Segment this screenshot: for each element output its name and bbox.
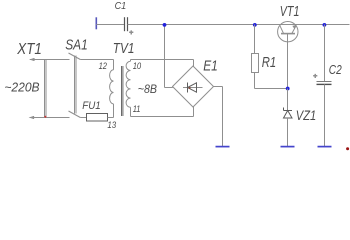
capacitor C2 [317, 25, 332, 147]
node junction C1 [163, 23, 167, 27]
svg-text:12: 12 [99, 61, 108, 72]
svg-text:SA1: SA1 [65, 36, 88, 53]
label pin 10 [133, 61, 142, 72]
svg-text:13: 13 [107, 120, 116, 131]
wire bottom-left mains [30, 117, 70, 119]
wire bridge minus to ground [214, 87, 223, 147]
secondary winding [130, 60, 132, 62]
artifact dot on bridge diode [189, 87, 191, 89]
svg-text:11: 11 [133, 104, 141, 115]
label VT1 [280, 3, 300, 20]
svg-text:C2: C2 [329, 62, 342, 77]
capacitor C1 [96, 17, 164, 31]
svg-text:C1: C1 [115, 1, 127, 12]
svg-text:R1: R1 [262, 55, 276, 71]
asterisk mark of C1 [129, 29, 133, 36]
label C2 [329, 62, 342, 77]
label ~220B [4, 81, 39, 95]
transistor VT1 [278, 22, 298, 89]
label XT1 [16, 41, 41, 58]
label E1 [203, 58, 218, 75]
plus mark of C2 [313, 73, 317, 80]
primary winding [113, 60, 115, 70]
wire secondary pin11 to bridge bottom [131, 107, 194, 117]
artifact red dot XT1 [44, 116, 46, 118]
ground [216, 146, 230, 148]
svg-text:~8В: ~8В [138, 82, 157, 96]
svg-text:~220В: ~220В [4, 81, 39, 95]
svg-text:FU1: FU1 [82, 100, 100, 112]
switch SA1 [69, 53, 81, 118]
resistor R1 [252, 25, 288, 89]
svg-text:TV1: TV1 [113, 41, 135, 57]
wire secondary pin10 to bridge top [131, 60, 194, 67]
wire top-left mains [30, 59, 70, 61]
label C1 [115, 1, 127, 12]
label SA1 [65, 36, 88, 53]
core [121, 66, 123, 116]
wire top rail [165, 24, 350, 26]
label ~8B [138, 82, 157, 96]
wire C1 junction down to bridge plus [165, 25, 173, 88]
zener diode VZ1 [284, 89, 293, 147]
connector XT1 [29, 58, 46, 119]
label VZ1 [296, 108, 316, 123]
svg-text:+: + [313, 73, 317, 80]
ground [318, 146, 332, 148]
svg-text:VZ1: VZ1 [296, 108, 316, 123]
label TV1 [113, 41, 135, 57]
label R1 [262, 55, 276, 71]
wire switch to transformer primary top [80, 59, 113, 61]
label pin 12 [99, 61, 108, 72]
label pin 11 [133, 104, 141, 115]
label FU1 [82, 100, 100, 112]
node junction R1 top [253, 23, 257, 27]
bridge rectifier E1 [173, 66, 214, 107]
fuse FU1 [80, 114, 113, 122]
ground [281, 146, 295, 148]
node junction C2 top [323, 23, 327, 27]
transformer TV1 [110, 60, 131, 118]
svg-text:E1: E1 [203, 58, 218, 75]
svg-text:XT1: XT1 [16, 41, 41, 58]
artifact red dot corner [346, 147, 349, 150]
node junction base [286, 87, 290, 91]
svg-text:VT1: VT1 [280, 3, 300, 20]
svg-text:+: + [129, 29, 133, 36]
svg-text:10: 10 [133, 61, 142, 72]
label pin 13 [107, 120, 116, 131]
